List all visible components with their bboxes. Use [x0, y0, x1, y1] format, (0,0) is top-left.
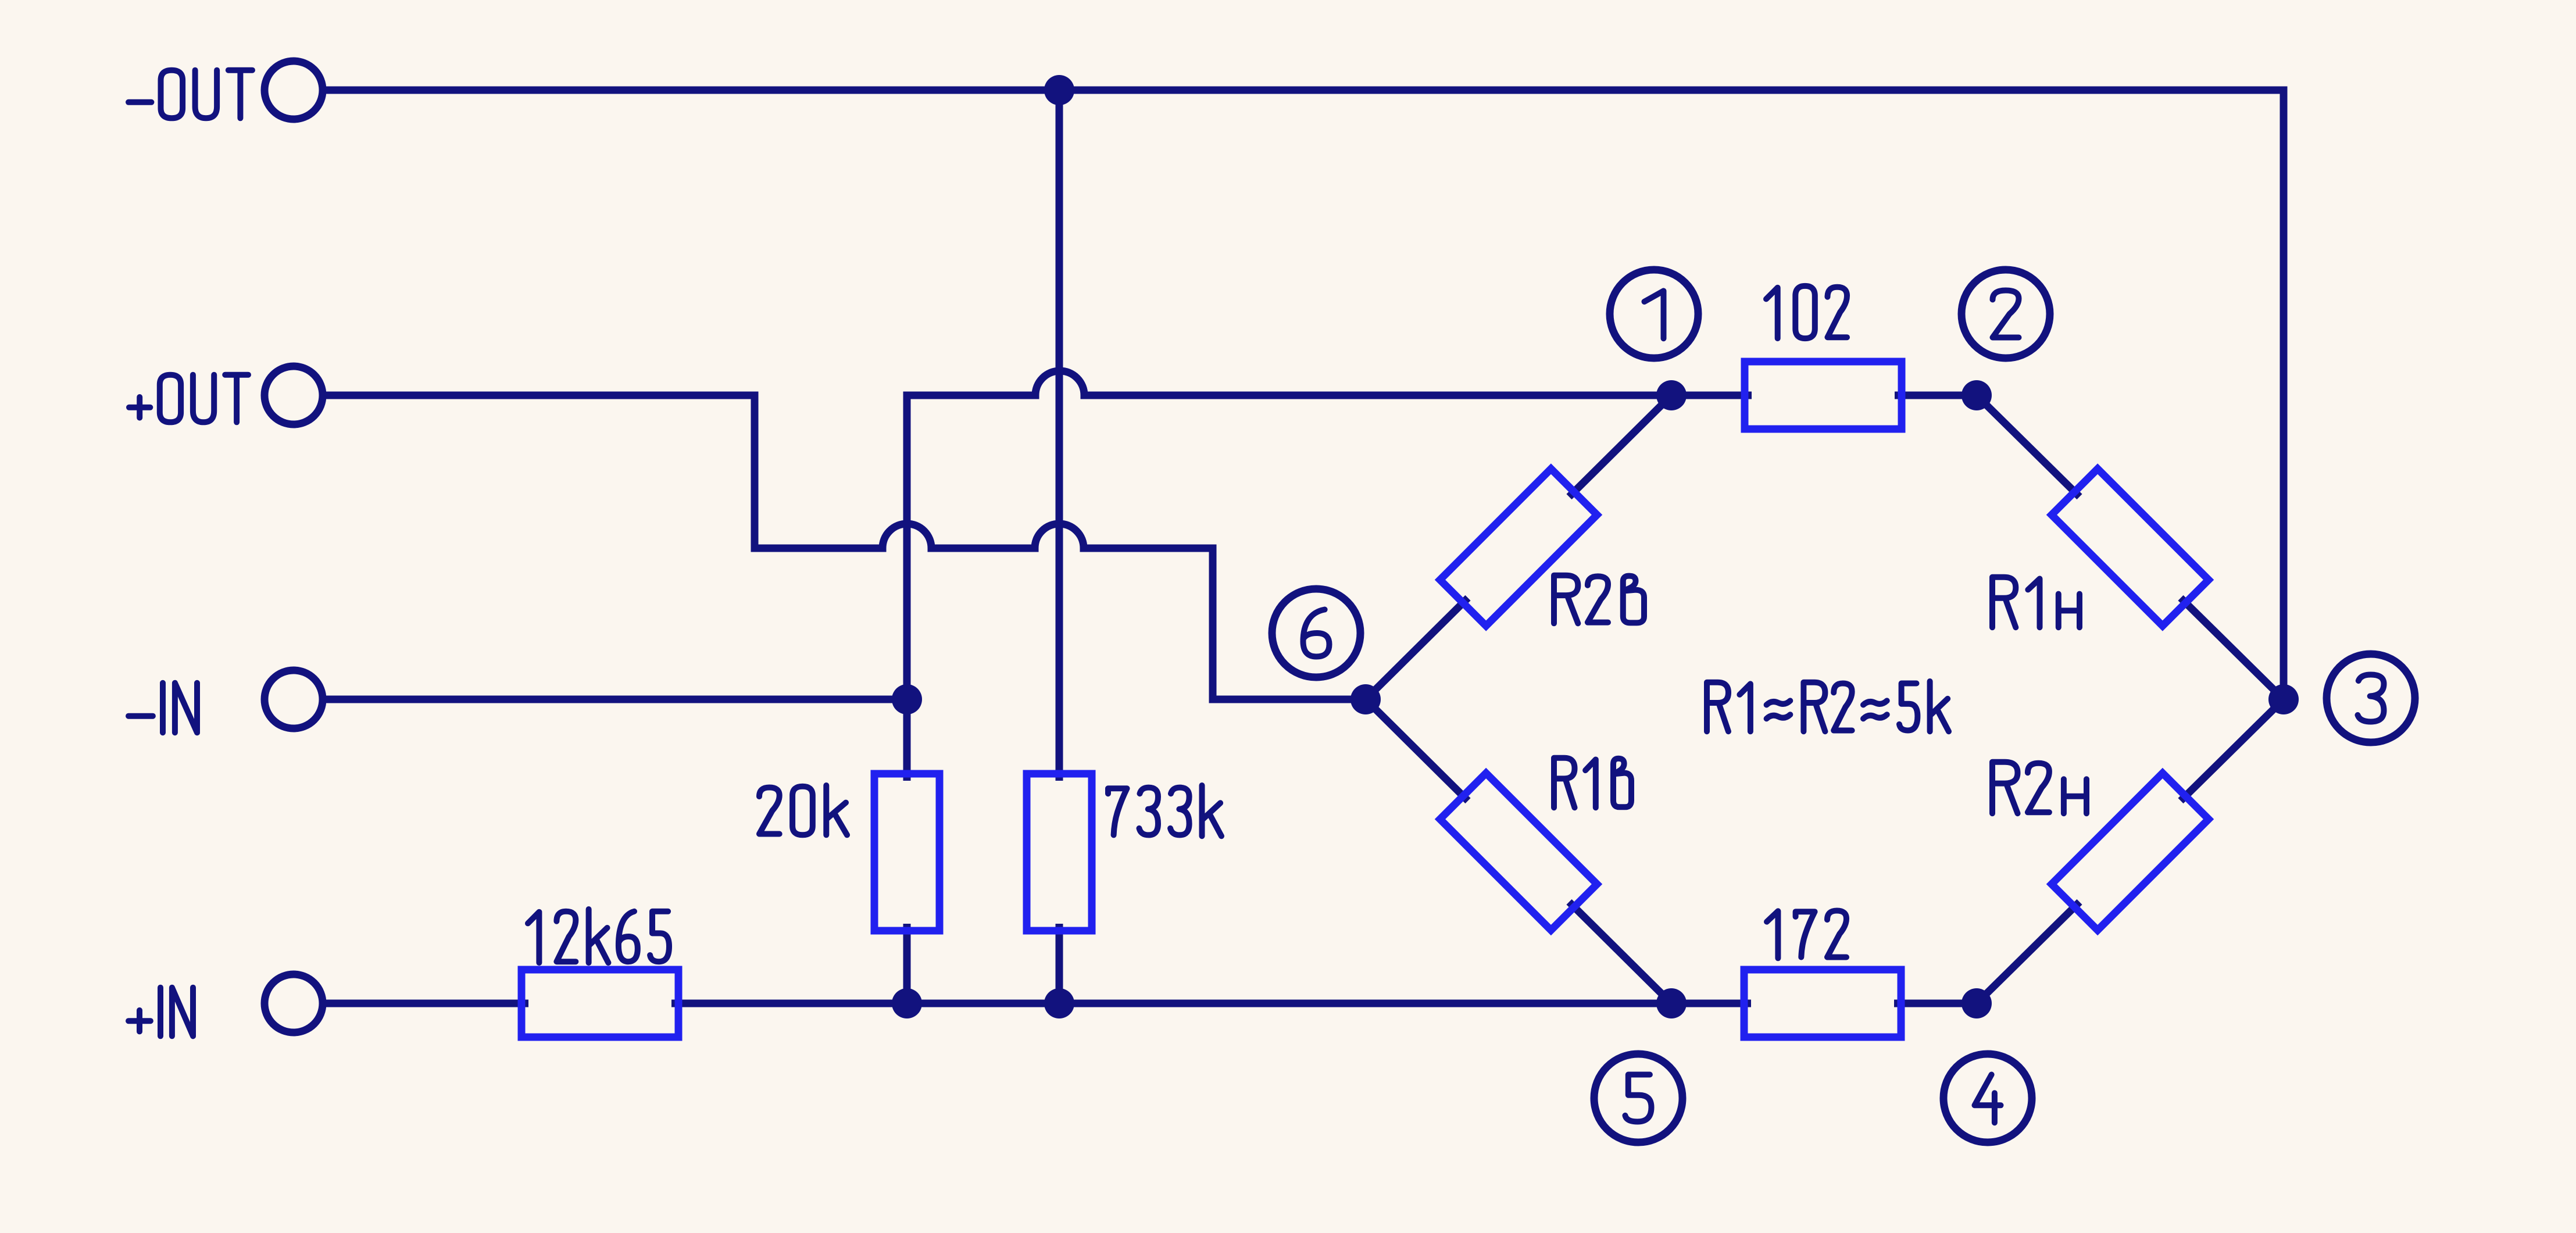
pin number 6: [1303, 610, 1330, 657]
node 2 dot: [1962, 380, 1992, 410]
label +OUT: [129, 375, 248, 423]
wire node6-node5: [1366, 699, 1671, 1003]
junction dot +IN/733k: [1044, 988, 1074, 1018]
wire +OUT net: [323, 395, 1366, 699]
node label circle 3: [2327, 654, 2415, 742]
resistor R1n body: [2052, 469, 2209, 626]
resistor R2v body: [1440, 469, 1597, 626]
label +IN: [128, 988, 193, 1037]
value 102: [1766, 286, 1847, 338]
node label circle 5: [1594, 1054, 1682, 1142]
node label circle 2: [1962, 270, 2050, 358]
wire +IN net: [323, 1000, 1977, 1007]
resistor 20k body: [874, 774, 939, 931]
label -IN: [128, 683, 197, 732]
wire vertical 733k branch: [1056, 90, 1063, 1003]
pin number 5: [1625, 1075, 1652, 1122]
pin number 1: [1645, 291, 1664, 338]
node 6 dot: [1350, 684, 1381, 714]
wire node1 horizontal and 20k vertical branch: [907, 371, 1671, 781]
node 1 dot: [1656, 380, 1687, 410]
wire -IN net: [323, 696, 907, 703]
label R2n: [1992, 762, 2086, 813]
terminal +IN: [265, 974, 323, 1032]
resistor R1v body: [1440, 773, 1597, 930]
value 172: [1767, 911, 1846, 959]
label -OUT: [128, 70, 252, 119]
wire node2-node3: [1977, 395, 2284, 699]
junction dot -IN/20k: [892, 684, 922, 714]
terminal -IN: [265, 670, 323, 728]
note R1~R2~5k: [1707, 681, 1949, 731]
wire node1-node2: [1671, 392, 1977, 399]
node 3 dot: [2268, 684, 2299, 714]
wire node6-node1: [1366, 395, 1671, 699]
pin number 3: [2358, 675, 2384, 722]
wire -OUT net: [323, 90, 2284, 699]
wire 20k to +IN: [903, 924, 911, 1003]
value 733k: [1108, 785, 1221, 836]
junction dot +IN/20k: [892, 988, 922, 1018]
node 4 dot: [1962, 988, 1992, 1018]
pin number 4: [1975, 1075, 2001, 1123]
resistor 172 body: [1744, 970, 1901, 1037]
label R1v: [1554, 758, 1631, 807]
terminal -OUT: [265, 61, 323, 119]
resistor 733k body: [1027, 774, 1092, 931]
terminal +OUT: [265, 366, 323, 424]
resistor 102 body: [1745, 362, 1902, 429]
node label circle 1: [1610, 270, 1698, 358]
value 20k: [759, 785, 847, 835]
pin number 2: [1993, 291, 2019, 338]
node label circle 6: [1272, 589, 1360, 677]
resistor 12k65 body: [521, 970, 678, 1037]
wire node3-node4: [1977, 699, 2284, 1003]
junction dot -OUT/733k: [1044, 75, 1074, 105]
resistor R2n body: [2052, 773, 2209, 930]
node 5 dot: [1656, 988, 1687, 1018]
node label circle 4: [1943, 1054, 2032, 1142]
label R2v: [1554, 576, 1644, 624]
value 12k65: [528, 909, 669, 963]
label R1n: [1992, 577, 2080, 627]
